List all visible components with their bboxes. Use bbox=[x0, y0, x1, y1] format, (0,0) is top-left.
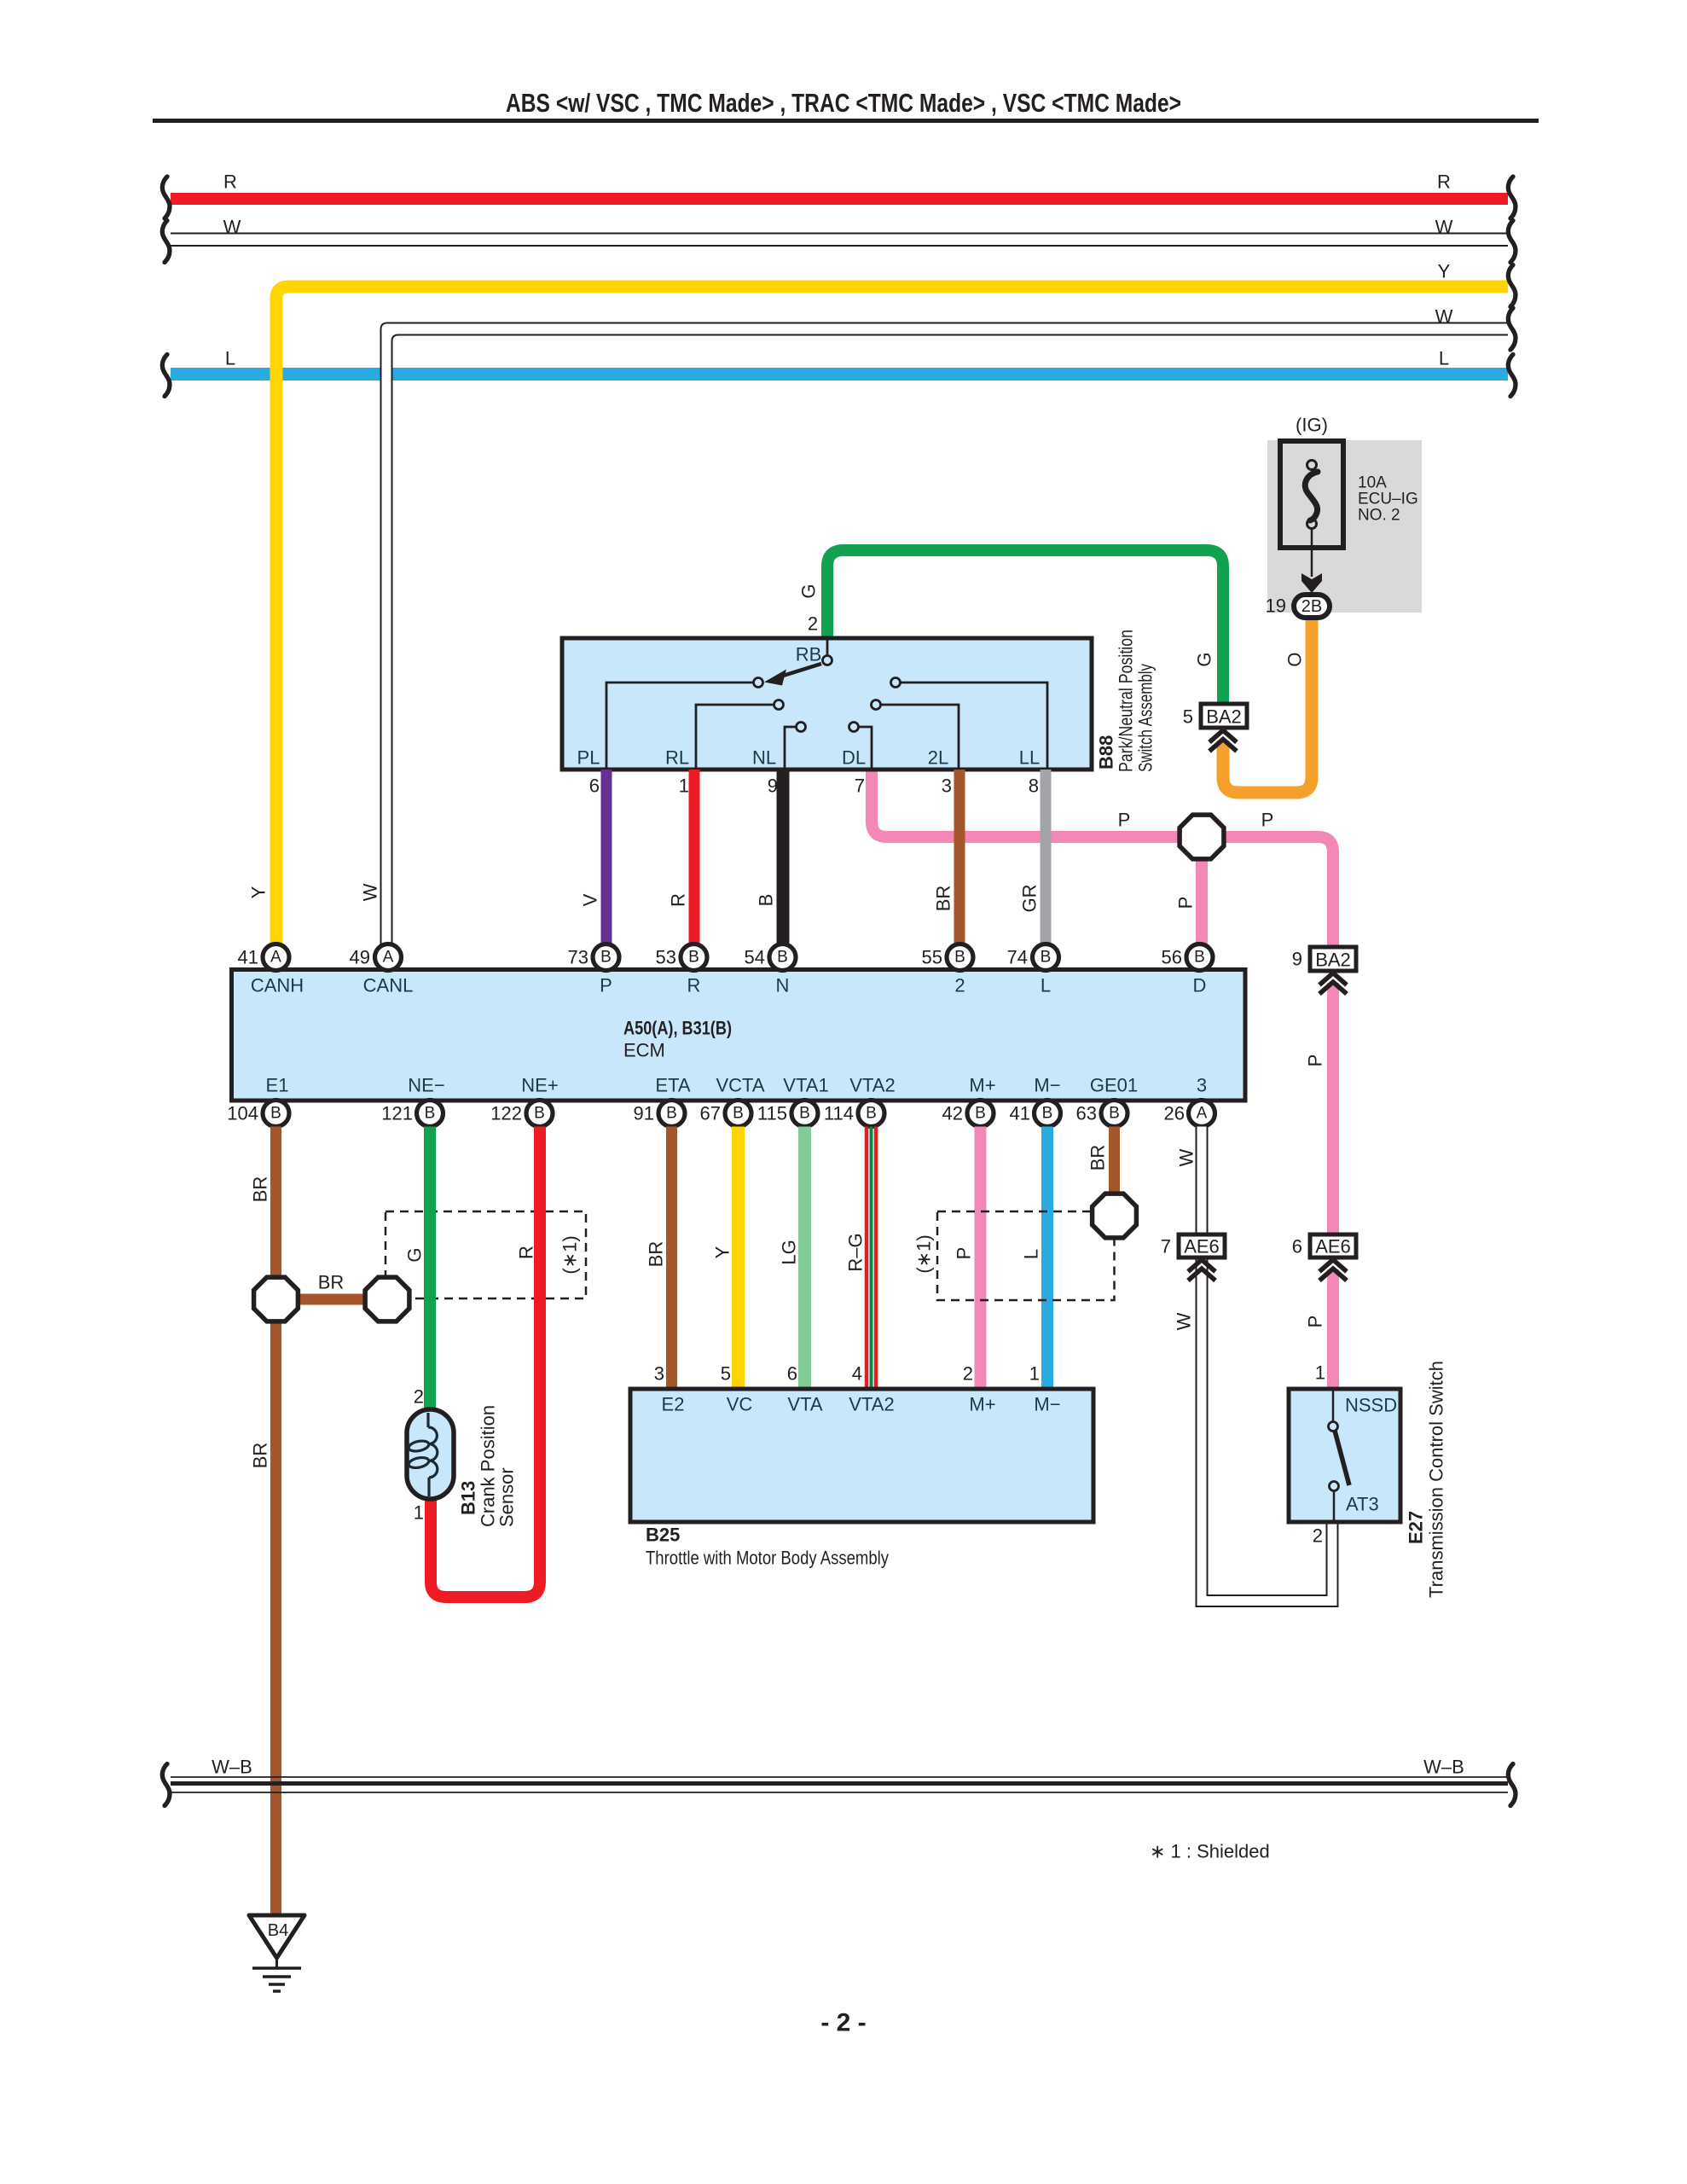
bus break symbols right bbox=[1508, 177, 1516, 218]
svg-text:W: W bbox=[360, 883, 381, 901]
svg-text:BR: BR bbox=[646, 1241, 667, 1268]
svg-text:P: P bbox=[1305, 1316, 1326, 1328]
svg-text:RB: RB bbox=[796, 644, 822, 665]
ECM top terminal names bbox=[251, 975, 1207, 996]
svg-text:G: G bbox=[1194, 652, 1215, 666]
svg-text:LG: LG bbox=[779, 1240, 800, 1264]
connector 7 AE6 bbox=[1161, 1234, 1225, 1258]
wire P 9 BA2 to 6 AE6 bbox=[1327, 983, 1339, 1234]
ECM top pin numbers bbox=[238, 947, 1182, 968]
fuse block shading bbox=[1267, 440, 1422, 613]
svg-text:G: G bbox=[404, 1247, 426, 1262]
B88 internal switch wiring bbox=[606, 640, 1047, 768]
svg-text:W: W bbox=[1174, 1312, 1195, 1330]
svg-text:W: W bbox=[1435, 306, 1453, 328]
svg-text:41: 41 bbox=[1010, 1103, 1030, 1124]
B88 terminal names bbox=[577, 747, 1041, 769]
junction octagon (pink) bbox=[1180, 815, 1224, 859]
wire L M- to B25 pin 1 bbox=[1041, 1127, 1053, 1390]
svg-text:P: P bbox=[954, 1247, 975, 1260]
svg-text:L: L bbox=[1021, 1249, 1042, 1259]
svg-text:BR: BR bbox=[250, 1443, 271, 1469]
svg-text:W: W bbox=[1176, 1148, 1197, 1166]
svg-text:Y: Y bbox=[248, 886, 270, 898]
ground B4 bbox=[249, 1915, 304, 1991]
svg-text:Sensor: Sensor bbox=[496, 1467, 518, 1527]
svg-text:M−: M− bbox=[1034, 1394, 1060, 1415]
wire P junction to 9 BA2 bbox=[1220, 837, 1333, 947]
svg-text:W: W bbox=[223, 217, 241, 238]
svg-text:P: P bbox=[1305, 1054, 1326, 1067]
wire W ECM pin 26 to 7 AE6 bbox=[1197, 1127, 1208, 1235]
svg-text:VC: VC bbox=[727, 1394, 753, 1415]
ECM top pins bbox=[263, 944, 1213, 971]
svg-text:M+: M+ bbox=[969, 1075, 995, 1096]
wire Y bus + CANH drop to pin 41 bbox=[276, 287, 1508, 944]
svg-text:P: P bbox=[1261, 810, 1274, 831]
svg-text:LL: LL bbox=[1019, 747, 1040, 769]
wire Y VCTA to B25 pin 5 bbox=[732, 1127, 745, 1390]
E27 Transmission Control Switch box bbox=[1289, 1389, 1400, 1522]
svg-text:19: 19 bbox=[1266, 595, 1286, 617]
wire GR B88 to pin 74 bbox=[1041, 770, 1052, 944]
B25 pin numbers bbox=[654, 1363, 1040, 1385]
wire R bus bbox=[171, 193, 1508, 205]
wire P from B88 DL to junction bbox=[872, 770, 1180, 837]
svg-text:Transmission Control Switch: Transmission Control Switch bbox=[1426, 1361, 1447, 1598]
chevrons below 6 AE6 bbox=[1319, 1260, 1347, 1281]
svg-text:R: R bbox=[687, 975, 701, 996]
svg-text:ECM: ECM bbox=[623, 1040, 665, 1061]
chevrons below 7 AE6 bbox=[1188, 1260, 1215, 1281]
svg-text:NL: NL bbox=[752, 747, 776, 769]
svg-text:1: 1 bbox=[1029, 1363, 1040, 1385]
wire W-B bus bbox=[171, 1777, 1508, 1792]
svg-text:B13: B13 bbox=[458, 1481, 479, 1515]
svg-text:VCTA: VCTA bbox=[716, 1075, 764, 1096]
svg-text:Y: Y bbox=[712, 1246, 733, 1258]
wire BR ETA to B25 pin 3 bbox=[666, 1127, 677, 1390]
svg-text:CANL: CANL bbox=[363, 975, 414, 996]
svg-text:73: 73 bbox=[568, 947, 588, 968]
svg-text:M−: M− bbox=[1034, 1075, 1060, 1096]
svg-text:NE+: NE+ bbox=[521, 1075, 558, 1096]
svg-text:GE01: GE01 bbox=[1090, 1075, 1138, 1096]
svg-text:4: 4 bbox=[852, 1363, 862, 1385]
svg-text:26: 26 bbox=[1164, 1103, 1185, 1124]
svg-text:91: 91 bbox=[634, 1103, 654, 1124]
svg-text:115: 115 bbox=[757, 1103, 787, 1124]
svg-text:55: 55 bbox=[922, 947, 942, 968]
svg-text:2: 2 bbox=[963, 1363, 973, 1385]
svg-text:A50(A), B31(B): A50(A), B31(B) bbox=[623, 1018, 732, 1039]
svg-text:ABS <w/ VSC , TMC Made> , TRAC: ABS <w/ VSC , TMC Made> , TRAC <TMC Made… bbox=[506, 88, 1181, 118]
svg-text:D: D bbox=[1193, 975, 1207, 996]
svg-text:E1: E1 bbox=[266, 1075, 289, 1096]
svg-text:(∗1): (∗1) bbox=[559, 1235, 581, 1274]
B13 Crank Position Sensor bbox=[407, 1409, 454, 1499]
connector 9 BA2 bbox=[1292, 947, 1356, 971]
svg-text:CANH: CANH bbox=[251, 975, 304, 996]
svg-text:E27: E27 bbox=[1406, 1511, 1427, 1544]
svg-text:67: 67 bbox=[700, 1103, 721, 1124]
svg-text:BA2: BA2 bbox=[1206, 706, 1242, 728]
svg-text:BR: BR bbox=[318, 1272, 345, 1293]
svg-text:M+: M+ bbox=[969, 1394, 995, 1415]
svg-text:(∗1): (∗1) bbox=[913, 1234, 935, 1273]
svg-text:10A: 10A bbox=[1358, 474, 1387, 492]
svg-text:DL: DL bbox=[842, 747, 866, 769]
svg-text:2L: 2L bbox=[928, 747, 948, 769]
junction octagon on E1 wire bbox=[254, 1277, 299, 1321]
svg-text:Y: Y bbox=[1438, 261, 1451, 282]
svg-text:N: N bbox=[776, 975, 790, 996]
B25 Throttle with Motor Body Assembly box bbox=[630, 1389, 1093, 1522]
connector 5 BA2 bbox=[1183, 704, 1247, 728]
svg-text:74: 74 bbox=[1007, 947, 1028, 968]
svg-text:W: W bbox=[1435, 217, 1453, 238]
svg-text:P: P bbox=[1118, 810, 1131, 831]
svg-text:R–G: R–G bbox=[845, 1233, 867, 1271]
ECM bottom pin numbers bbox=[227, 1103, 1185, 1124]
svg-text:41: 41 bbox=[238, 947, 258, 968]
svg-text:NSSD: NSSD bbox=[1345, 1395, 1397, 1416]
wire L bus bbox=[171, 368, 1508, 380]
E27 internal switch bbox=[1329, 1389, 1350, 1522]
bus break symbols left bbox=[162, 177, 170, 218]
svg-text:42: 42 bbox=[942, 1103, 963, 1124]
svg-text:7: 7 bbox=[855, 775, 865, 797]
chevrons below 5 BA2 bbox=[1209, 730, 1237, 752]
svg-text:G: G bbox=[798, 584, 820, 598]
svg-text:9: 9 bbox=[1292, 949, 1302, 970]
svg-text:Switch Assembly: Switch Assembly bbox=[1135, 664, 1157, 772]
svg-text:L: L bbox=[225, 348, 235, 369]
svg-text:2: 2 bbox=[808, 613, 818, 635]
svg-text:122: 122 bbox=[490, 1103, 522, 1124]
svg-text:VTA1: VTA1 bbox=[783, 1075, 828, 1096]
wire BR B88 to pin 55 bbox=[954, 770, 965, 944]
svg-text:VTA2: VTA2 bbox=[849, 1394, 894, 1415]
svg-text:L: L bbox=[1439, 348, 1449, 369]
svg-text:B: B bbox=[756, 894, 777, 907]
B25 terminal names bbox=[662, 1394, 1061, 1415]
svg-text:P: P bbox=[1175, 897, 1197, 909]
svg-text:6: 6 bbox=[787, 1363, 797, 1385]
wire W bus bbox=[171, 234, 1508, 247]
svg-text:W–B: W–B bbox=[212, 1757, 252, 1778]
svg-text:W–B: W–B bbox=[1423, 1757, 1464, 1778]
title rule bbox=[153, 119, 1539, 123]
fuse 10A ECU-IG NO.2 bbox=[1280, 441, 1343, 593]
wire G from B88 pin2 to 5 BA2 bbox=[827, 550, 1223, 704]
svg-text:54: 54 bbox=[745, 947, 765, 968]
shield dashed box (crank sensor) bbox=[386, 1211, 586, 1298]
wire B B88 to pin 54 bbox=[777, 770, 790, 944]
svg-text:1: 1 bbox=[679, 775, 689, 797]
svg-text:2: 2 bbox=[414, 1386, 424, 1408]
svg-text:2: 2 bbox=[954, 975, 965, 996]
wire BR GE01 to shield junction bbox=[1109, 1127, 1120, 1195]
ECM box A50(A) B31(B) bbox=[232, 970, 1246, 1101]
svg-text:ECU–IG: ECU–IG bbox=[1358, 491, 1418, 508]
svg-text:3: 3 bbox=[1197, 1075, 1207, 1096]
svg-text:NO. 2: NO. 2 bbox=[1358, 507, 1400, 525]
svg-text:P: P bbox=[600, 975, 612, 996]
wire BR E1 to ground B4 bbox=[270, 1127, 281, 1916]
svg-text:56: 56 bbox=[1162, 947, 1182, 968]
wire V B88 to pin 73 bbox=[601, 770, 612, 944]
svg-text:114: 114 bbox=[824, 1103, 854, 1124]
svg-text:9: 9 bbox=[768, 775, 778, 797]
svg-text:Throttle with Motor Body Assem: Throttle with Motor Body Assembly bbox=[646, 1548, 889, 1569]
svg-text:R: R bbox=[516, 1246, 537, 1259]
svg-text:BR: BR bbox=[1087, 1145, 1109, 1171]
svg-text:AT3: AT3 bbox=[1346, 1494, 1379, 1515]
svg-text:BA2: BA2 bbox=[1315, 950, 1351, 971]
svg-text:8: 8 bbox=[1029, 775, 1039, 797]
W-B bus break symbols bbox=[162, 1764, 170, 1806]
wire R B88 to pin 53 bbox=[689, 770, 700, 944]
ECM bottom pins bbox=[263, 1101, 1215, 1127]
svg-text:B4: B4 bbox=[268, 1921, 288, 1940]
connector 6 AE6 bbox=[1292, 1234, 1356, 1258]
wire W bus 2 + CANL drop to pin 49 (white with black edges) bbox=[381, 323, 1509, 945]
wire W below 7 AE6 to E27 pin 2 bbox=[1197, 1258, 1338, 1606]
wire O from fuse 2B to BA2 bbox=[1223, 617, 1312, 793]
svg-text:NE−: NE− bbox=[408, 1075, 444, 1096]
wire P M+ to B25 pin 2 bbox=[975, 1127, 987, 1390]
svg-text:2B: 2B bbox=[1301, 597, 1322, 616]
svg-text:- 2 -: - 2 - bbox=[820, 2009, 866, 2037]
svg-text:63: 63 bbox=[1076, 1103, 1097, 1124]
svg-text:3: 3 bbox=[942, 775, 952, 797]
wire G NE- to B13 pin 2 bbox=[424, 1127, 436, 1410]
svg-text:5: 5 bbox=[1183, 706, 1193, 728]
svg-text:6: 6 bbox=[589, 775, 600, 797]
fuse output oval 19 2B bbox=[1266, 595, 1330, 618]
svg-text:ETA: ETA bbox=[655, 1075, 690, 1096]
svg-text:AE6: AE6 bbox=[1184, 1236, 1220, 1258]
svg-text:AE6: AE6 bbox=[1315, 1236, 1351, 1258]
B88 Park/Neutral Position Switch Assembly box bbox=[562, 638, 1092, 770]
shield dashed box (throttle motor) bbox=[937, 1211, 1115, 1300]
svg-text:53: 53 bbox=[656, 947, 676, 968]
svg-text:PL: PL bbox=[577, 747, 600, 769]
wire LG VTA1 to B25 pin 6 bbox=[798, 1127, 811, 1390]
svg-text:3: 3 bbox=[654, 1363, 664, 1385]
junction octagon on shield wire bbox=[365, 1277, 409, 1321]
svg-text:R: R bbox=[223, 171, 237, 193]
svg-text:B25: B25 bbox=[646, 1525, 680, 1546]
svg-text:E2: E2 bbox=[662, 1394, 685, 1415]
svg-text:V: V bbox=[580, 893, 601, 906]
svg-text:∗ 1 : Shielded: ∗ 1 : Shielded bbox=[1150, 1841, 1270, 1862]
svg-text:2: 2 bbox=[1313, 1525, 1323, 1547]
svg-text:1: 1 bbox=[414, 1502, 424, 1524]
svg-text:VTA2: VTA2 bbox=[849, 1075, 895, 1096]
svg-text:R: R bbox=[668, 893, 689, 907]
svg-text:O: O bbox=[1284, 652, 1306, 666]
svg-text:7: 7 bbox=[1161, 1236, 1171, 1258]
B88 pin numbers bbox=[589, 775, 1039, 797]
wire BR shield link between junctions bbox=[276, 1294, 388, 1305]
svg-text:VTA: VTA bbox=[787, 1394, 822, 1415]
wire P junction down to pin 56 bbox=[1196, 858, 1208, 944]
svg-text:BR: BR bbox=[250, 1176, 271, 1203]
svg-text:BR: BR bbox=[933, 886, 954, 912]
svg-text:B88: B88 bbox=[1096, 735, 1117, 770]
svg-text:Park/Neutral Position: Park/Neutral Position bbox=[1116, 630, 1137, 772]
wire R B13 pin 1 to NE+ bbox=[431, 1127, 540, 1598]
svg-text:1: 1 bbox=[1315, 1362, 1325, 1384]
ECM bottom terminal names bbox=[266, 1075, 1208, 1096]
svg-text:GR: GR bbox=[1019, 885, 1041, 913]
svg-text:49: 49 bbox=[350, 947, 370, 968]
svg-text:RL: RL bbox=[665, 747, 689, 769]
svg-text:R: R bbox=[1437, 171, 1451, 193]
wire R-G VTA2 to B25 pin 4 bbox=[867, 1127, 876, 1390]
svg-text:104: 104 bbox=[227, 1103, 258, 1124]
svg-text:5: 5 bbox=[721, 1363, 731, 1385]
chevrons below 9 BA2 bbox=[1319, 973, 1347, 995]
svg-text:L: L bbox=[1041, 975, 1051, 996]
svg-text:121: 121 bbox=[381, 1103, 413, 1124]
wire P below 6 AE6 to E27 pin 1 bbox=[1327, 1269, 1339, 1389]
junction octagon on GE01 wire bbox=[1093, 1194, 1137, 1238]
svg-text:6: 6 bbox=[1292, 1236, 1302, 1258]
svg-text:(IG): (IG) bbox=[1296, 415, 1328, 436]
